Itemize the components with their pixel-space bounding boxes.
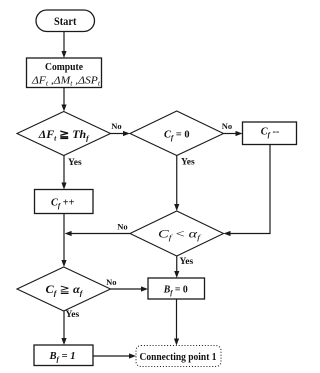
process Cf-- <box>243 122 297 145</box>
svg-text:Connecting point 1: Connecting point 1 <box>140 352 217 363</box>
svg-text:Bf = 0: Bf = 0 <box>163 284 188 298</box>
wire D3 to Bf=0 <box>174 256 179 278</box>
svg-text:Cf < αf: Cf < αf <box>158 229 201 243</box>
svg-text:Yes: Yes <box>181 158 195 168</box>
svg-text:Cf = 0: Cf = 0 <box>164 129 190 143</box>
svg-text:No: No <box>117 222 127 232</box>
svg-text:Yes: Yes <box>68 158 82 168</box>
svg-text:Compute: Compute <box>45 62 83 73</box>
wire Start to Compute <box>61 32 66 59</box>
svg-text:Cf --: Cf -- <box>261 126 280 140</box>
decision D1 dF >= Thf <box>17 112 111 156</box>
wire Bf=1 to Connecting point <box>93 353 136 358</box>
svg-text:Start: Start <box>54 16 77 28</box>
process Bf=1 <box>34 345 93 366</box>
wire D2 to Cf-- <box>224 131 243 136</box>
wire Cf-- down and left to D3 <box>224 145 271 237</box>
svg-text:ΔFt ,ΔMt ,ΔSPt: ΔFt ,ΔMt ,ΔSPt <box>31 76 101 88</box>
svg-text:ΔFt ≧ Thf: ΔFt ≧ Thf <box>38 129 91 143</box>
svg-text:Yes: Yes <box>66 310 80 320</box>
wire Cf++ to D4 <box>61 214 66 268</box>
decision D2 Cf = 0 <box>130 111 224 156</box>
svg-text:No: No <box>111 121 121 131</box>
wire D4 to Bf=1 <box>61 311 66 345</box>
wire D2 to D3 <box>174 156 179 212</box>
decision D4 Cf >= af <box>17 267 111 311</box>
wire Bf=0 to Connecting point <box>174 299 179 346</box>
svg-text:Cf ≧ αf: Cf ≧ αf <box>46 284 85 298</box>
wire D1 to D2 <box>111 131 131 136</box>
wire D3 No to left rail <box>65 231 130 236</box>
wire D4 No to Bf=0 <box>111 286 149 291</box>
svg-text:Bf = 1: Bf = 1 <box>49 350 76 364</box>
svg-text:Cf ++: Cf ++ <box>51 197 75 211</box>
process Cf++ <box>35 190 94 214</box>
process Bf=0 <box>148 278 205 299</box>
terminator Connecting point 1 (dotted) <box>136 346 221 367</box>
wire D1 to Cf++ <box>61 156 66 190</box>
process Compute <box>27 58 102 88</box>
svg-text:Yes: Yes <box>180 257 194 267</box>
svg-text:No: No <box>106 277 116 287</box>
decision D3 Cf < af <box>130 211 224 256</box>
terminator Start <box>36 10 95 32</box>
svg-text:No: No <box>222 121 232 131</box>
wire Compute to decision D1 <box>61 88 66 112</box>
